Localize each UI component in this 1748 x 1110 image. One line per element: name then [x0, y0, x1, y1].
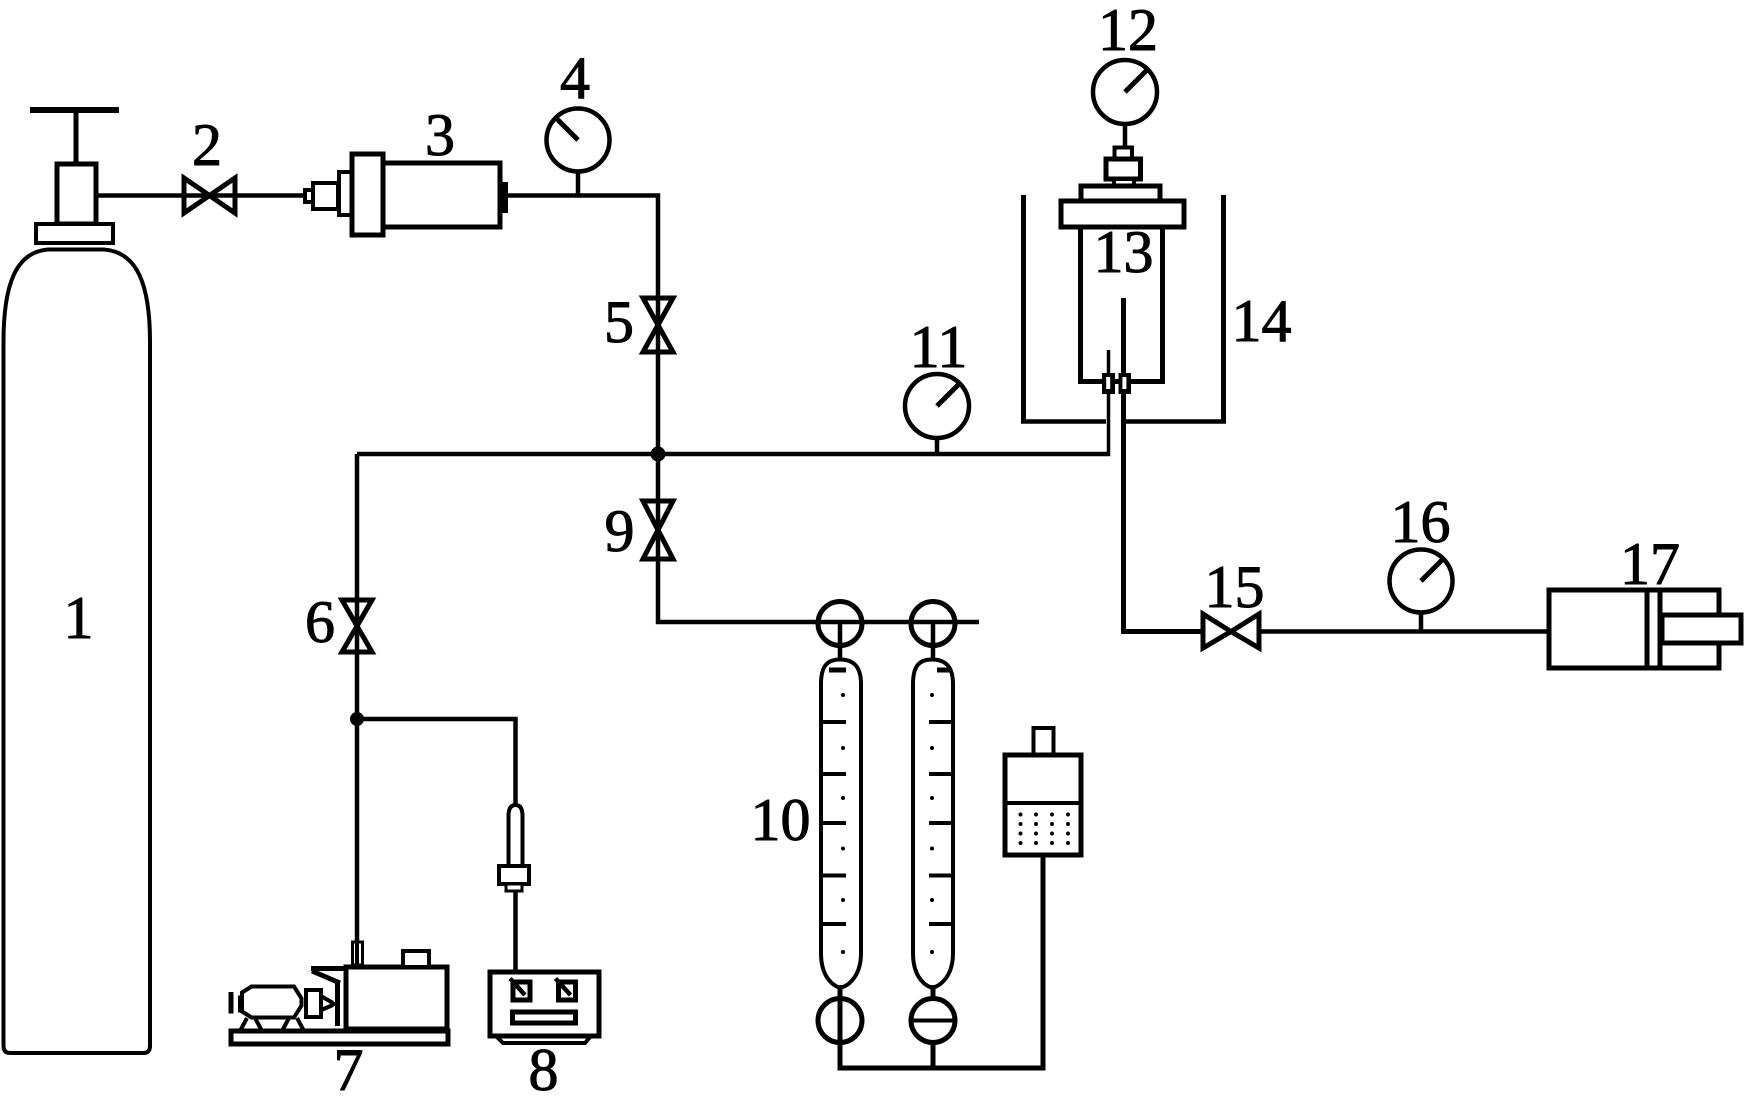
pump 7 inlet collar — [353, 940, 363, 967]
wire left branch down through valve 6 to pump — [355, 454, 360, 965]
wire thermocouple lead — [513, 891, 518, 972]
svg-text:5: 5 — [604, 289, 634, 355]
pump 7 coupling cone — [320, 996, 340, 1011]
pump 7 intake beak — [311, 969, 346, 1027]
wire line to flowmeters — [840, 624, 933, 664]
svg-text:1: 1 — [64, 585, 94, 651]
node junction dot 2 — [350, 712, 364, 726]
pressure gauge 11 stem — [935, 436, 940, 456]
reactor 13 vessel — [1078, 227, 1165, 382]
reactor 13 bottom fitting right — [1119, 373, 1132, 394]
pump 7 top port — [403, 951, 429, 967]
gas bag body — [1005, 755, 1081, 855]
gas bag neck — [1034, 728, 1054, 755]
pressure gauge 4 — [547, 109, 610, 172]
filter 3 left nub — [305, 190, 313, 202]
svg-text:3: 3 — [425, 102, 455, 168]
svg-text:15: 15 — [1205, 554, 1265, 620]
pump 7 baseplate — [231, 1031, 448, 1044]
wire pipe valve 15 to cylinder 17 — [1259, 629, 1549, 634]
gas cylinder 1 valve block — [57, 164, 96, 224]
svg-text:17: 17 — [1620, 531, 1680, 597]
pressure gauge 12 — [1093, 60, 1157, 124]
valve 15 — [1203, 614, 1259, 648]
gas cylinder 1 body — [4, 250, 151, 1054]
pressure gauge 4 stem — [576, 170, 581, 197]
gas cylinder 1 flange — [36, 224, 113, 243]
svg-text:13: 13 — [1094, 219, 1154, 285]
svg-text:9: 9 — [605, 498, 635, 564]
wire reactor right tube to valve 15 — [1124, 298, 1204, 632]
svg-text:14: 14 — [1232, 288, 1292, 354]
filter 3 right nub — [500, 182, 508, 213]
wire reactor left tube — [1107, 350, 1111, 456]
reactor 13 top fitting small — [1115, 148, 1133, 160]
flow meter 10 tube 2 — [913, 660, 953, 988]
controller 8 dial B — [556, 979, 576, 1001]
flow meter 10 tube 1 — [821, 660, 861, 988]
pump 7 motor cap — [229, 992, 243, 1014]
controller 8 dial A — [510, 979, 530, 1001]
svg-text:16: 16 — [1391, 489, 1451, 555]
svg-text:10: 10 — [751, 787, 811, 853]
temperature controller 8 box — [490, 972, 599, 1036]
cylinder 17 piston — [1647, 590, 1660, 668]
reactor 13 lid plate 2 — [1061, 201, 1184, 227]
reactor 13 top fitting block — [1106, 159, 1141, 179]
wire cylinder outlet pipe — [96, 193, 305, 198]
pump 7 body feet — [349, 1028, 357, 1032]
node junction dot — [651, 447, 666, 462]
gas cylinder 1 handle — [30, 110, 119, 166]
svg-text:8: 8 — [529, 1037, 559, 1103]
wire flowmeter 1 drain with manifold — [840, 855, 1043, 1068]
valve 9 — [643, 501, 673, 559]
drain valve circle 2 — [911, 999, 955, 1043]
vacuum pump 7 body — [346, 967, 447, 1029]
pressure gauge 11 — [905, 374, 969, 438]
svg-text:2: 2 — [192, 112, 222, 178]
reactor 13 lid plate 1 — [1081, 186, 1160, 201]
pump 7 coupling — [306, 990, 321, 1017]
cylinder 17 rod — [1662, 615, 1741, 643]
filter 3 body — [383, 163, 500, 227]
reactor 13 top neck — [1114, 179, 1134, 187]
controller 8 base — [496, 1036, 591, 1043]
pressure gauge 16 — [1390, 550, 1453, 613]
valve 2 — [184, 178, 235, 213]
wire gauge 12 stem — [1123, 124, 1128, 149]
svg-text:11: 11 — [910, 314, 968, 380]
valve 5 — [643, 298, 673, 352]
controller 8 display slot — [513, 1012, 576, 1023]
svg-text:4: 4 — [560, 45, 590, 111]
stopcock circle on flowmeter 2 — [911, 602, 955, 646]
pump 7 motor body — [242, 987, 302, 1018]
filter 3 fitting B — [339, 172, 352, 215]
wire main horizontal pipe — [357, 452, 1110, 457]
wire pipe from filter to corner and down through valves 5,9 — [508, 196, 979, 623]
wire flowmeter 2 drain stems — [931, 985, 936, 1068]
drain valve circle 1 — [818, 999, 862, 1043]
reactor 13 bottom fitting left — [1102, 373, 1115, 394]
valve 6 — [342, 600, 372, 652]
wire branch to thermocouple — [357, 719, 516, 806]
svg-text:6: 6 — [305, 589, 335, 655]
pump 7 motor feet — [240, 1018, 304, 1031]
svg-text:7: 7 — [334, 1037, 364, 1103]
stopcock circle on flowmeter 1 — [818, 602, 862, 646]
cylinder 17 body — [1549, 590, 1719, 668]
water bath 14 — [1021, 195, 1226, 423]
pressure gauge 16 stem — [1419, 611, 1424, 633]
thermocouple probe of controller 8 — [499, 805, 529, 891]
svg-text:12: 12 — [1098, 0, 1158, 63]
filter 3 fitting A — [313, 183, 338, 209]
filter 3 head — [352, 154, 383, 235]
